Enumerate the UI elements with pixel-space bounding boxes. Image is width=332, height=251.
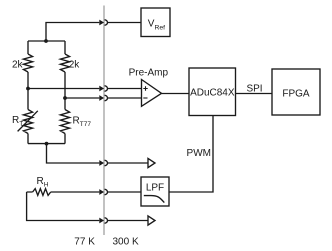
svg-text:77 K: 77 K: [74, 236, 95, 247]
svg-text:ADuC84X: ADuC84X: [190, 88, 235, 99]
svg-text:PWM: PWM: [187, 148, 211, 159]
svg-text:SPI: SPI: [246, 83, 262, 94]
svg-text:RT: RT: [12, 115, 23, 128]
svg-text:FPGA: FPGA: [282, 88, 310, 99]
svg-text:Pre-Amp: Pre-Amp: [129, 68, 169, 79]
svg-text:2k: 2k: [12, 60, 24, 71]
svg-text:300 K: 300 K: [113, 236, 139, 247]
svg-text:LPF: LPF: [146, 183, 164, 194]
svg-text:RT77: RT77: [73, 116, 92, 129]
svg-text:2k: 2k: [69, 60, 81, 71]
svg-text:RH: RH: [37, 176, 49, 189]
